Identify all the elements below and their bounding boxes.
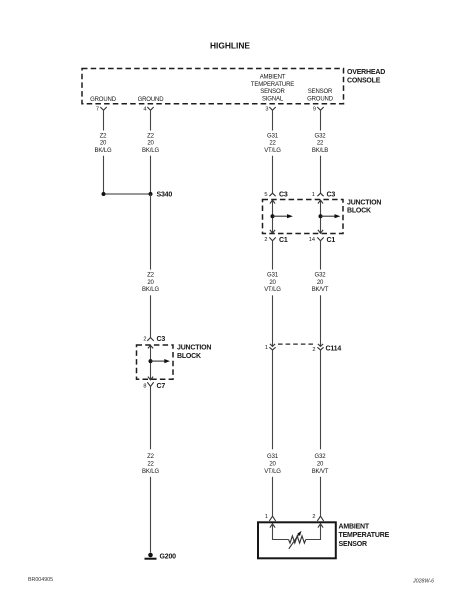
svg-text:GROUND: GROUND	[307, 96, 334, 102]
wire G32 below C114	[320, 350, 322, 449]
svg-text:JUNCTION: JUNCTION	[347, 200, 381, 207]
svg-text:BR004905: BR004905	[28, 577, 53, 583]
svg-text:3: 3	[265, 107, 268, 113]
svg-text:C114: C114	[326, 346, 342, 353]
svg-text:S340: S340	[157, 192, 173, 199]
svg-text:C7: C7	[157, 383, 166, 390]
wire Z2 col1 upper	[103, 110, 105, 130]
wire G32 to junction block	[320, 156, 322, 194]
junction block (right) label	[347, 200, 381, 215]
svg-text:VT/LG: VT/LG	[264, 287, 281, 293]
value G32 20 BK/VT	[312, 273, 329, 294]
svg-text:C1: C1	[327, 237, 336, 244]
svg-text:JUNCTION: JUNCTION	[177, 345, 211, 352]
splice S340	[102, 192, 173, 199]
wire through junction block left	[270, 200, 275, 234]
sensor pin 1 entry arrowhead + stub	[270, 523, 289, 540]
svg-text:BK/LG: BK/LG	[142, 148, 159, 154]
svg-text:G200: G200	[160, 554, 177, 561]
connector C3 pin 5	[264, 191, 287, 198]
svg-text:SIGNAL: SIGNAL	[262, 96, 284, 102]
title HIGHLINE	[210, 41, 250, 51]
wire Z2 splice to label	[150, 194, 152, 270]
svg-text:G32: G32	[315, 133, 327, 139]
svg-text:2: 2	[312, 514, 315, 520]
svg-text:1: 1	[265, 514, 268, 520]
svg-text:Z2: Z2	[147, 133, 155, 139]
svg-text:SENSOR: SENSOR	[260, 89, 285, 95]
svg-text:TEMPERATURE: TEMPERATURE	[251, 82, 294, 88]
junction block (right) box	[263, 200, 344, 234]
svg-text:1: 1	[265, 345, 268, 351]
svg-text:C3: C3	[327, 191, 336, 198]
svg-text:GROUND: GROUND	[90, 97, 117, 103]
node junction left (dot + arrow)	[271, 214, 293, 218]
wire G31 below C114	[272, 350, 274, 449]
wire G31 to C114	[272, 295, 274, 346]
svg-text:C3: C3	[157, 336, 166, 343]
junction block (left) label	[177, 345, 211, 361]
wire G32 to C114	[320, 295, 322, 346]
svg-text:20: 20	[317, 280, 324, 286]
svg-text:BK/LB: BK/LB	[312, 148, 328, 154]
wire G32 below junction block	[320, 241, 322, 270]
ground G200	[145, 553, 177, 561]
wire Z2 below junction block	[150, 387, 152, 450]
svg-text:G31: G31	[267, 133, 279, 139]
wire G31 col3 upper	[272, 110, 274, 130]
svg-text:20: 20	[100, 141, 107, 147]
svg-text:4: 4	[143, 107, 146, 113]
svg-text:BK/LG: BK/LG	[142, 287, 159, 293]
svg-text:Z2: Z2	[147, 273, 155, 279]
svg-text:1: 1	[312, 192, 315, 198]
pin 9	[313, 107, 324, 113]
sensor pin 2 entry arrowhead + stub	[306, 523, 323, 540]
node GROUND (pin 4 label)	[138, 97, 165, 103]
node SENSOR GROUND	[307, 89, 334, 102]
svg-text:G32: G32	[315, 273, 327, 279]
connector C3 pin 2	[143, 336, 165, 343]
svg-text:9: 9	[313, 107, 316, 113]
ambient temperature sensor box	[258, 522, 336, 558]
value Z2 20 BK/LG (below splice)	[142, 273, 159, 294]
pin 4	[143, 107, 153, 113]
svg-text:J028W-6: J028W-6	[412, 579, 434, 585]
svg-text:GROUND: GROUND	[138, 97, 165, 103]
node AMBIENT TEMPERATURE SENSOR SIGNAL	[251, 75, 294, 103]
wire G31 below junction block	[272, 241, 274, 270]
svg-text:SENSOR: SENSOR	[339, 541, 368, 548]
svg-text:BLOCK: BLOCK	[177, 353, 201, 360]
ambient temperature sensor label	[339, 523, 390, 548]
svg-text:HIGHLINE: HIGHLINE	[210, 41, 250, 51]
wire G32 col4 upper	[320, 110, 322, 130]
pin 2 (sensor)	[312, 514, 323, 521]
svg-text:AMBIENT: AMBIENT	[260, 75, 286, 81]
svg-text:VT/LG: VT/LG	[264, 148, 281, 154]
overhead console label	[347, 69, 385, 85]
svg-text:20: 20	[269, 280, 276, 286]
svg-text:2: 2	[143, 337, 146, 343]
value Z2 20 BK/LG (col1)	[95, 133, 112, 154]
value G32 22 BK/LB	[312, 133, 328, 154]
connector C7 pin 8	[143, 382, 165, 390]
node junction right (dot + arrow)	[319, 214, 341, 218]
node GROUND (pin 7 label)	[90, 97, 117, 103]
svg-text:BK/VT: BK/VT	[312, 287, 329, 293]
svg-text:5: 5	[264, 192, 267, 198]
wire Z2 to ground	[150, 477, 152, 553]
thermistor RT (zigzag + arrow)	[289, 531, 306, 549]
value G31 20 VT/LG	[264, 273, 281, 294]
pin 3	[265, 107, 275, 113]
svg-text:Z2: Z2	[147, 454, 155, 460]
footer J028W-6	[412, 579, 434, 585]
svg-text:20: 20	[269, 462, 276, 468]
svg-text:20: 20	[147, 141, 154, 147]
svg-text:Z2: Z2	[100, 133, 108, 139]
footer BR004905	[28, 577, 53, 583]
svg-text:BK/VT: BK/VT	[312, 469, 329, 475]
svg-text:BLOCK: BLOCK	[347, 208, 371, 215]
svg-text:OVERHEAD: OVERHEAD	[347, 69, 385, 76]
svg-text:14: 14	[309, 237, 315, 243]
svg-text:SENSOR: SENSOR	[308, 89, 333, 95]
wire Z2 col2 upper	[150, 110, 152, 130]
pin 7	[96, 107, 107, 113]
svg-text:22: 22	[147, 462, 154, 468]
svg-text:22: 22	[317, 141, 324, 147]
svg-text:C1: C1	[279, 237, 288, 244]
svg-text:BK/LG: BK/LG	[95, 148, 112, 154]
svg-text:2: 2	[312, 347, 315, 353]
svg-text:22: 22	[269, 141, 276, 147]
svg-text:BK/LG: BK/LG	[142, 469, 159, 475]
svg-text:CONSOLE: CONSOLE	[347, 78, 381, 85]
overhead console box	[82, 69, 344, 104]
wire Z2 col1 lower	[103, 156, 105, 192]
svg-text:G32: G32	[315, 454, 327, 460]
svg-text:AMBIENT: AMBIENT	[339, 523, 370, 530]
svg-text:TEMPERATURE: TEMPERATURE	[339, 532, 390, 539]
wire through junction block (left)	[148, 345, 153, 380]
svg-text:7: 7	[96, 107, 99, 113]
svg-text:20: 20	[147, 280, 154, 286]
wire G31 to sensor	[272, 477, 274, 516]
node junction (dot + arrow)	[149, 359, 170, 363]
value Z2 22 BK/LG	[142, 454, 159, 475]
svg-text:VT/LG: VT/LG	[264, 469, 281, 475]
svg-text:G31: G31	[267, 273, 279, 279]
svg-text:20: 20	[317, 462, 324, 468]
svg-text:G31: G31	[267, 454, 279, 460]
connector C3 pin 1	[312, 191, 335, 198]
value Z2 20 BK/LG (col2)	[142, 133, 159, 154]
svg-text:8: 8	[143, 383, 146, 389]
wire G31 to junction block	[272, 156, 274, 194]
wire through junction block right	[318, 200, 323, 234]
svg-text:2: 2	[264, 237, 267, 243]
value G31 22 VT/LG	[264, 133, 281, 154]
value G31 20 VT/LG (lower)	[264, 454, 281, 475]
wire Z2 to junction block	[150, 295, 152, 337]
svg-text:C3: C3	[279, 191, 288, 198]
pin 1 (sensor)	[265, 514, 276, 521]
connector C114	[265, 344, 341, 353]
value G32 20 BK/VT (lower)	[312, 454, 329, 475]
junction block (left) box	[137, 345, 174, 379]
wire Z2 col2 to splice	[150, 156, 152, 194]
connector C1 pin 2	[264, 237, 287, 244]
wire G32 to sensor	[320, 477, 322, 516]
connector C1 pin 14	[309, 237, 336, 244]
